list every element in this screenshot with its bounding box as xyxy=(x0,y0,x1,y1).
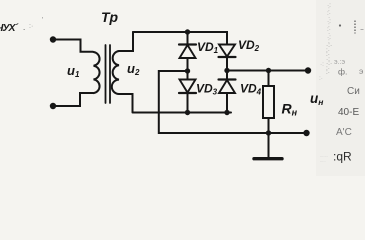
svg-text:э: э xyxy=(359,66,363,76)
svg-text:': ' xyxy=(42,17,43,24)
scan noise small marks upper right xyxy=(339,24,341,26)
wire (primary bottom lead) xyxy=(53,93,93,106)
svg-text:ЧУХ´: ЧУХ´ xyxy=(0,22,20,34)
diode VD3 xyxy=(179,71,196,93)
wire (VD2 to mid-right node) xyxy=(226,57,228,71)
transformer winding u2 (secondary coil) xyxy=(112,51,119,94)
resistor RH xyxy=(263,86,274,118)
node D (mid-left node) xyxy=(185,68,190,73)
svg-text::qR: :qR xyxy=(333,150,352,164)
ground xyxy=(268,133,270,157)
diode VD2 xyxy=(219,45,236,58)
node C (top rail junction at VD1) xyxy=(185,29,190,34)
node E (lower output terminal) xyxy=(303,130,309,136)
wire (primary top lead) xyxy=(53,40,93,52)
svg-text:40-Е: 40-Е xyxy=(338,107,359,118)
wire (VD1 to mid-left node) xyxy=(187,58,189,71)
svg-text:э.:э: э.:э xyxy=(334,59,345,66)
svg-text:.: . xyxy=(23,23,25,32)
svg-text:ф.: ф. xyxy=(338,67,347,77)
svg-text:·:: ·: xyxy=(320,61,324,68)
wire (secondary top lead to top rail) xyxy=(119,32,133,51)
svg-text:Си: Си xyxy=(347,86,360,97)
node K (ground junction) xyxy=(266,130,271,135)
transformer winding u1 (primary coil) xyxy=(94,52,100,93)
node G (bottom rail junction at VD4) xyxy=(224,110,229,115)
wire (VD3 to bottom rail) xyxy=(187,93,189,113)
wire (bottom rail from secondary) xyxy=(119,94,231,113)
node B (primary bottom terminal) xyxy=(50,103,56,109)
svg-text::·: :· xyxy=(326,69,330,76)
wire (mid-left node to lower output line) xyxy=(159,71,307,133)
svg-text::·: :· xyxy=(319,75,323,82)
svg-text:А'С: А'С xyxy=(336,127,352,138)
svg-text:Tp: Tp xyxy=(101,9,119,25)
node I (resistor top junction) xyxy=(266,68,271,73)
wire (VD4 to bottom rail) xyxy=(226,93,228,113)
diode VD1 xyxy=(179,45,196,59)
svg-text::·: :· xyxy=(29,23,33,30)
scan noise right dotted column xyxy=(319,2,332,82)
node J (upper output terminal) xyxy=(305,67,311,73)
wire (resistor bottom lead) xyxy=(268,118,270,133)
transformer core Tp xyxy=(106,45,111,103)
node A (primary top terminal) xyxy=(50,36,56,42)
diode VD4 xyxy=(219,71,236,94)
wire (upper output line) xyxy=(227,70,308,72)
node H (mid-right node) xyxy=(224,68,229,73)
wire (resistor top lead) xyxy=(268,71,270,87)
svg-text:.....: ..... xyxy=(320,158,326,163)
wire (VD1 top lead) xyxy=(187,32,189,45)
wire (top rail to VD2) xyxy=(133,32,227,45)
node F (bottom rail junction at VD3) xyxy=(185,110,190,115)
